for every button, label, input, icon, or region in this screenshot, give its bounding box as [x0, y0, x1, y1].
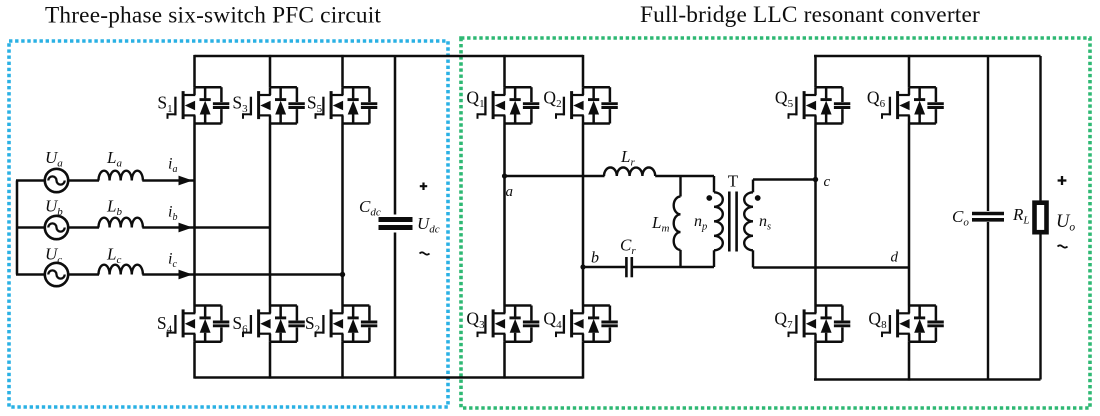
inductor Lr [604, 168, 655, 177]
wire: LLC input leg2 [582, 55, 585, 87]
label + (Uo) [1058, 176, 1067, 185]
svg-text:a: a [506, 184, 514, 200]
wire: phase a source to inductor [68, 179, 99, 182]
secondary polarity dot [755, 195, 761, 201]
AC source Ub [45, 216, 68, 239]
wire: phase c from bus to source [16, 273, 45, 276]
switch S1 (MOSFET with body diode and cap) [167, 87, 230, 123]
wire: PFC leg3 [341, 55, 344, 87]
inductor Lc [99, 265, 143, 275]
switch Q5 (MOSFET with body diode and cap) [788, 87, 851, 123]
wire: Lr to transformer primary top [655, 175, 714, 178]
switch S6 (MOSFET with body diode and cap) [242, 306, 304, 342]
wire: phase a inductor to bridge [142, 179, 194, 182]
wire: node b to Cr [583, 266, 625, 269]
resistor RL [1035, 203, 1047, 233]
wire: left phase bus [16, 181, 19, 275]
wire: phase a from bus to source [16, 179, 45, 182]
node b junction [580, 264, 585, 269]
switch S3 (MOSFET with body diode and cap) [242, 87, 304, 123]
capacitor Co [972, 212, 1004, 216]
svg-text:Full-bridge LLC resonant conve: Full-bridge LLC resonant converter [640, 2, 980, 28]
switch Q2 (MOSFET with body diode and cap) [555, 87, 618, 123]
wire: Co branch [987, 56, 989, 211]
wire: phase b inductor to bridge [142, 226, 270, 229]
svg-text:b: b [591, 250, 599, 267]
wire: PFC leg2 [269, 55, 272, 87]
wire: phase b from bus to source [16, 226, 45, 229]
label - (Udc) [420, 252, 430, 254]
current arrow ic [179, 270, 193, 280]
inductor Lm (magnetizing) [679, 176, 681, 197]
wire: output leg1 [814, 55, 817, 87]
svg-text:Three-phase six-switch PFC cir: Three-phase six-switch PFC circuit [45, 3, 381, 29]
switch Q1 (MOSFET with body diode and cap) [477, 87, 540, 123]
switch Q7 (MOSFET with body diode and cap) [788, 306, 851, 342]
wire: input top rail [195, 55, 584, 58]
switch S2 (MOSFET with body diode and cap) [315, 306, 378, 342]
primary polarity dot [706, 195, 712, 201]
capacitor Cdc [379, 217, 413, 222]
wire: PFC leg1 [193, 55, 196, 87]
AC source Ua [45, 169, 68, 192]
AC source Uc [45, 263, 68, 286]
capacitor Cr [625, 257, 628, 277]
svg-text:T: T [728, 172, 739, 191]
wire: secondary top to node c [753, 178, 816, 181]
transformer primary winding np [713, 176, 715, 192]
switch Q8 (MOSFET with body diode and cap) [881, 306, 944, 342]
inductor La [99, 171, 143, 181]
transformer secondary winding ns [752, 180, 754, 193]
wire: Cdc branch [394, 56, 397, 215]
transformer core [728, 192, 731, 252]
wire: phase c inductor to bridge [142, 273, 342, 276]
switch S4 (MOSFET with body diode and cap) [167, 306, 230, 342]
node a junction [502, 173, 507, 178]
LLC dashed frame (green) [461, 38, 1090, 408]
node c junction [813, 177, 818, 182]
wire: Cr to transformer primary bottom [633, 266, 714, 269]
switch Q6 (MOSFET with body diode and cap) [881, 87, 944, 123]
wire: secondary bottom to node d [753, 266, 909, 269]
switch S5 (MOSFET with body diode and cap) [315, 87, 378, 123]
switch Q3 (MOSFET with body diode and cap) [477, 306, 540, 342]
label - (Uo) [1058, 245, 1068, 247]
wire: LLC input leg1 [503, 55, 506, 87]
wire: RL branch [1039, 56, 1041, 203]
wire: input bottom rail [195, 376, 584, 379]
wire: node a to Lr [505, 175, 605, 178]
switch Q4 (MOSFET with body diode and cap) [555, 306, 618, 342]
label + (Udc) [420, 183, 427, 191]
svg-text:c: c [824, 174, 831, 190]
wire: phase c source to inductor [68, 273, 99, 276]
current arrow ib [179, 223, 193, 233]
wire: output leg2 [908, 55, 911, 87]
junction: phase c / leg3 [340, 272, 345, 277]
wire: output top rail [814, 55, 1041, 58]
wire: phase b source to inductor [68, 226, 99, 229]
PFC dashed frame (cyan) [9, 41, 448, 407]
current arrow ia [179, 176, 193, 186]
svg-text:d: d [891, 250, 899, 266]
inductor Lb [99, 218, 143, 228]
wire: output bottom rail [814, 378, 1041, 381]
